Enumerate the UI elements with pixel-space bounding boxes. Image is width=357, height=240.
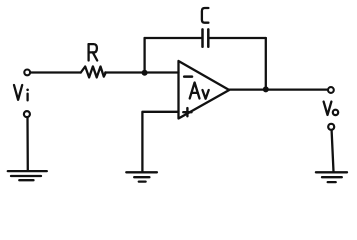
label Vo — [324, 102, 339, 116]
wire feedback right vertical — [265, 38, 267, 89]
op-amp U1 triangle — [179, 61, 230, 119]
capacitor C plates — [201, 29, 204, 46]
node A junction dot — [142, 70, 148, 76]
wire Vi terminal to ground — [26, 118, 29, 171]
ground right — [316, 172, 347, 182]
node Vi input terminal (top circle) — [24, 70, 30, 76]
label C — [202, 8, 209, 23]
op-amp plus sign — [183, 108, 191, 116]
wire feedback left vertical — [143, 38, 145, 73]
wire output — [228, 88, 328, 90]
node Vo ground terminal (bottom circle) — [328, 124, 334, 130]
node Vi ground terminal (bottom circle) — [24, 111, 30, 117]
label R — [89, 44, 98, 60]
wire Vo terminal to ground — [332, 130, 334, 171]
resistor R — [81, 66, 106, 77]
wire capacitor to feedback right corner — [210, 37, 266, 39]
wire input to resistor — [30, 71, 80, 73]
wire resistor to node A — [105, 71, 178, 73]
wire non-inverting input — [142, 112, 178, 171]
node Vo output terminal (circle) — [328, 87, 334, 93]
ground middle — [126, 172, 157, 181]
node B output junction dot — [263, 86, 269, 92]
op-amp minus sign — [184, 75, 192, 78]
label Vi — [14, 85, 29, 100]
label Av — [190, 83, 209, 99]
ground left — [8, 171, 47, 180]
wire feedback top left to capacitor — [145, 37, 202, 39]
